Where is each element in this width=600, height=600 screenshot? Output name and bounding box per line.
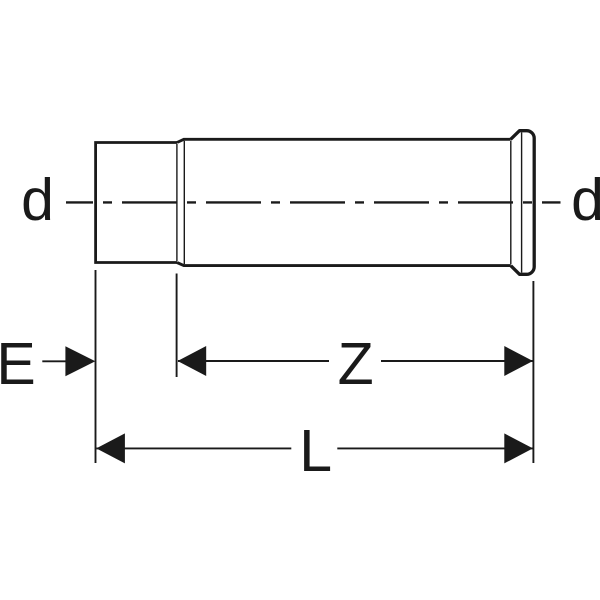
pipe body top outline with chamfer xyxy=(177,139,511,142)
socket mouth line xyxy=(183,141,185,264)
pipe body bottom outline with chamfer xyxy=(177,263,511,266)
dimension E leader line xyxy=(42,360,66,362)
svg-text:Z: Z xyxy=(338,331,374,397)
extension line right (fitting end) xyxy=(532,281,534,463)
pipe spigot outline (left plain end) xyxy=(96,143,177,263)
dimension Z right arrowhead xyxy=(504,346,533,376)
bead inner line left xyxy=(510,141,512,264)
dimension L line right segment xyxy=(337,447,532,449)
extension line middle (insertion depth) xyxy=(176,274,178,378)
dimension Z line right segment xyxy=(381,360,533,362)
centerline (dash-dot axis) xyxy=(66,201,561,203)
svg-text:L: L xyxy=(299,418,332,484)
svg-text:E: E xyxy=(0,331,36,397)
dimension L left arrowhead xyxy=(96,433,125,463)
dimension Z line left segment xyxy=(178,360,329,362)
pressing bead outline (right socket end) xyxy=(511,131,535,275)
dimension E arrowhead xyxy=(65,346,95,376)
extension line left (pipe end) xyxy=(95,270,97,463)
svg-text:d: d xyxy=(21,167,54,233)
bead inner line right xyxy=(521,133,523,273)
dimension Z left arrowhead xyxy=(178,346,207,376)
svg-text:d: d xyxy=(571,167,600,233)
step line at spigot/socket transition xyxy=(176,144,178,261)
dimension L right arrowhead xyxy=(504,433,533,463)
dimension L line left segment xyxy=(97,447,292,449)
